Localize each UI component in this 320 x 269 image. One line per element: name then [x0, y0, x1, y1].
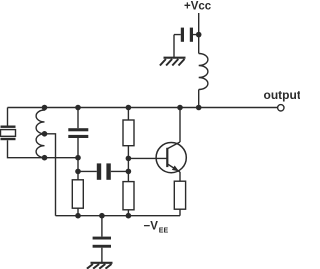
- resistor R1 (upper): [123, 120, 134, 146]
- wire R2 to rail: [77, 208, 79, 216]
- -VEE label: [144, 221, 169, 235]
- wire left branch to crystal: [7, 108, 9, 126]
- capacitor C2: [68, 128, 88, 138]
- wire collector to rail: [179, 108, 181, 143]
- node choke / rail: [196, 105, 202, 111]
- node R3 / rail: [126, 213, 132, 219]
- inductor L1 (tapped coil): [36, 108, 44, 158]
- node collector / rail: [177, 105, 183, 111]
- wire top rail: [8, 107, 281, 109]
- node C2 top / rail: [75, 105, 81, 111]
- svg-text:−V: −V: [144, 221, 159, 233]
- resistor R2 (lower left): [72, 180, 83, 208]
- wire C3 right lead: [111, 170, 129, 172]
- svg-text:+Vcc: +Vcc: [184, 1, 212, 13]
- node Vcc / C1 junction: [196, 32, 202, 38]
- wire R4 to rail: [179, 209, 181, 216]
- transistor Q1: [156, 142, 186, 173]
- wire C1 to ground: [173, 35, 175, 57]
- node R1 top / rail: [126, 105, 132, 111]
- wire rail to C4: [101, 216, 103, 237]
- node C3 left: [75, 169, 81, 175]
- wire rail to R1: [127, 108, 129, 121]
- wire C2 down: [77, 138, 79, 180]
- wire Vcc lead down: [198, 13, 200, 54]
- crystal Y1: [1, 126, 16, 141]
- wire bottom rail: [56, 215, 181, 217]
- wire R3 to rail: [127, 210, 129, 216]
- svg-text:output: output: [264, 88, 301, 102]
- wire rail to C2: [77, 108, 79, 129]
- wire C4 to ground: [101, 248, 103, 263]
- svg-text:EE: EE: [159, 228, 169, 235]
- resistor R4 (emitter): [174, 181, 185, 209]
- ground (top, Vcc bypass): [160, 58, 186, 66]
- capacitor C3 (coupling): [97, 163, 111, 179]
- node crystal line / C2: [75, 155, 81, 161]
- wire crystal bottom: [8, 140, 79, 158]
- node base junction: [126, 156, 132, 162]
- node L1 tap: [42, 131, 48, 137]
- capacitor C4 (VEE bypass): [93, 237, 111, 248]
- node L1 bottom: [42, 155, 48, 161]
- wire tap to bottom rail: [45, 134, 56, 216]
- wire R1 to R3 column: [127, 146, 129, 182]
- ground (bottom, VEE bypass): [87, 263, 113, 269]
- inductor RFC (choke): [199, 54, 208, 90]
- node L1 top: [42, 105, 48, 111]
- resistor R3 (lower right): [123, 182, 134, 210]
- wire emitter to R4: [179, 172, 181, 181]
- wire C3 left lead: [78, 170, 97, 172]
- wire base: [128, 157, 167, 159]
- output terminal: [278, 105, 284, 111]
- node R2 / rail: [75, 213, 81, 219]
- node C3 right: [126, 169, 132, 175]
- capacitor C1 (Vcc bypass): [174, 28, 199, 42]
- wire choke to output rail: [198, 90, 200, 108]
- node C4 / rail: [99, 213, 105, 219]
